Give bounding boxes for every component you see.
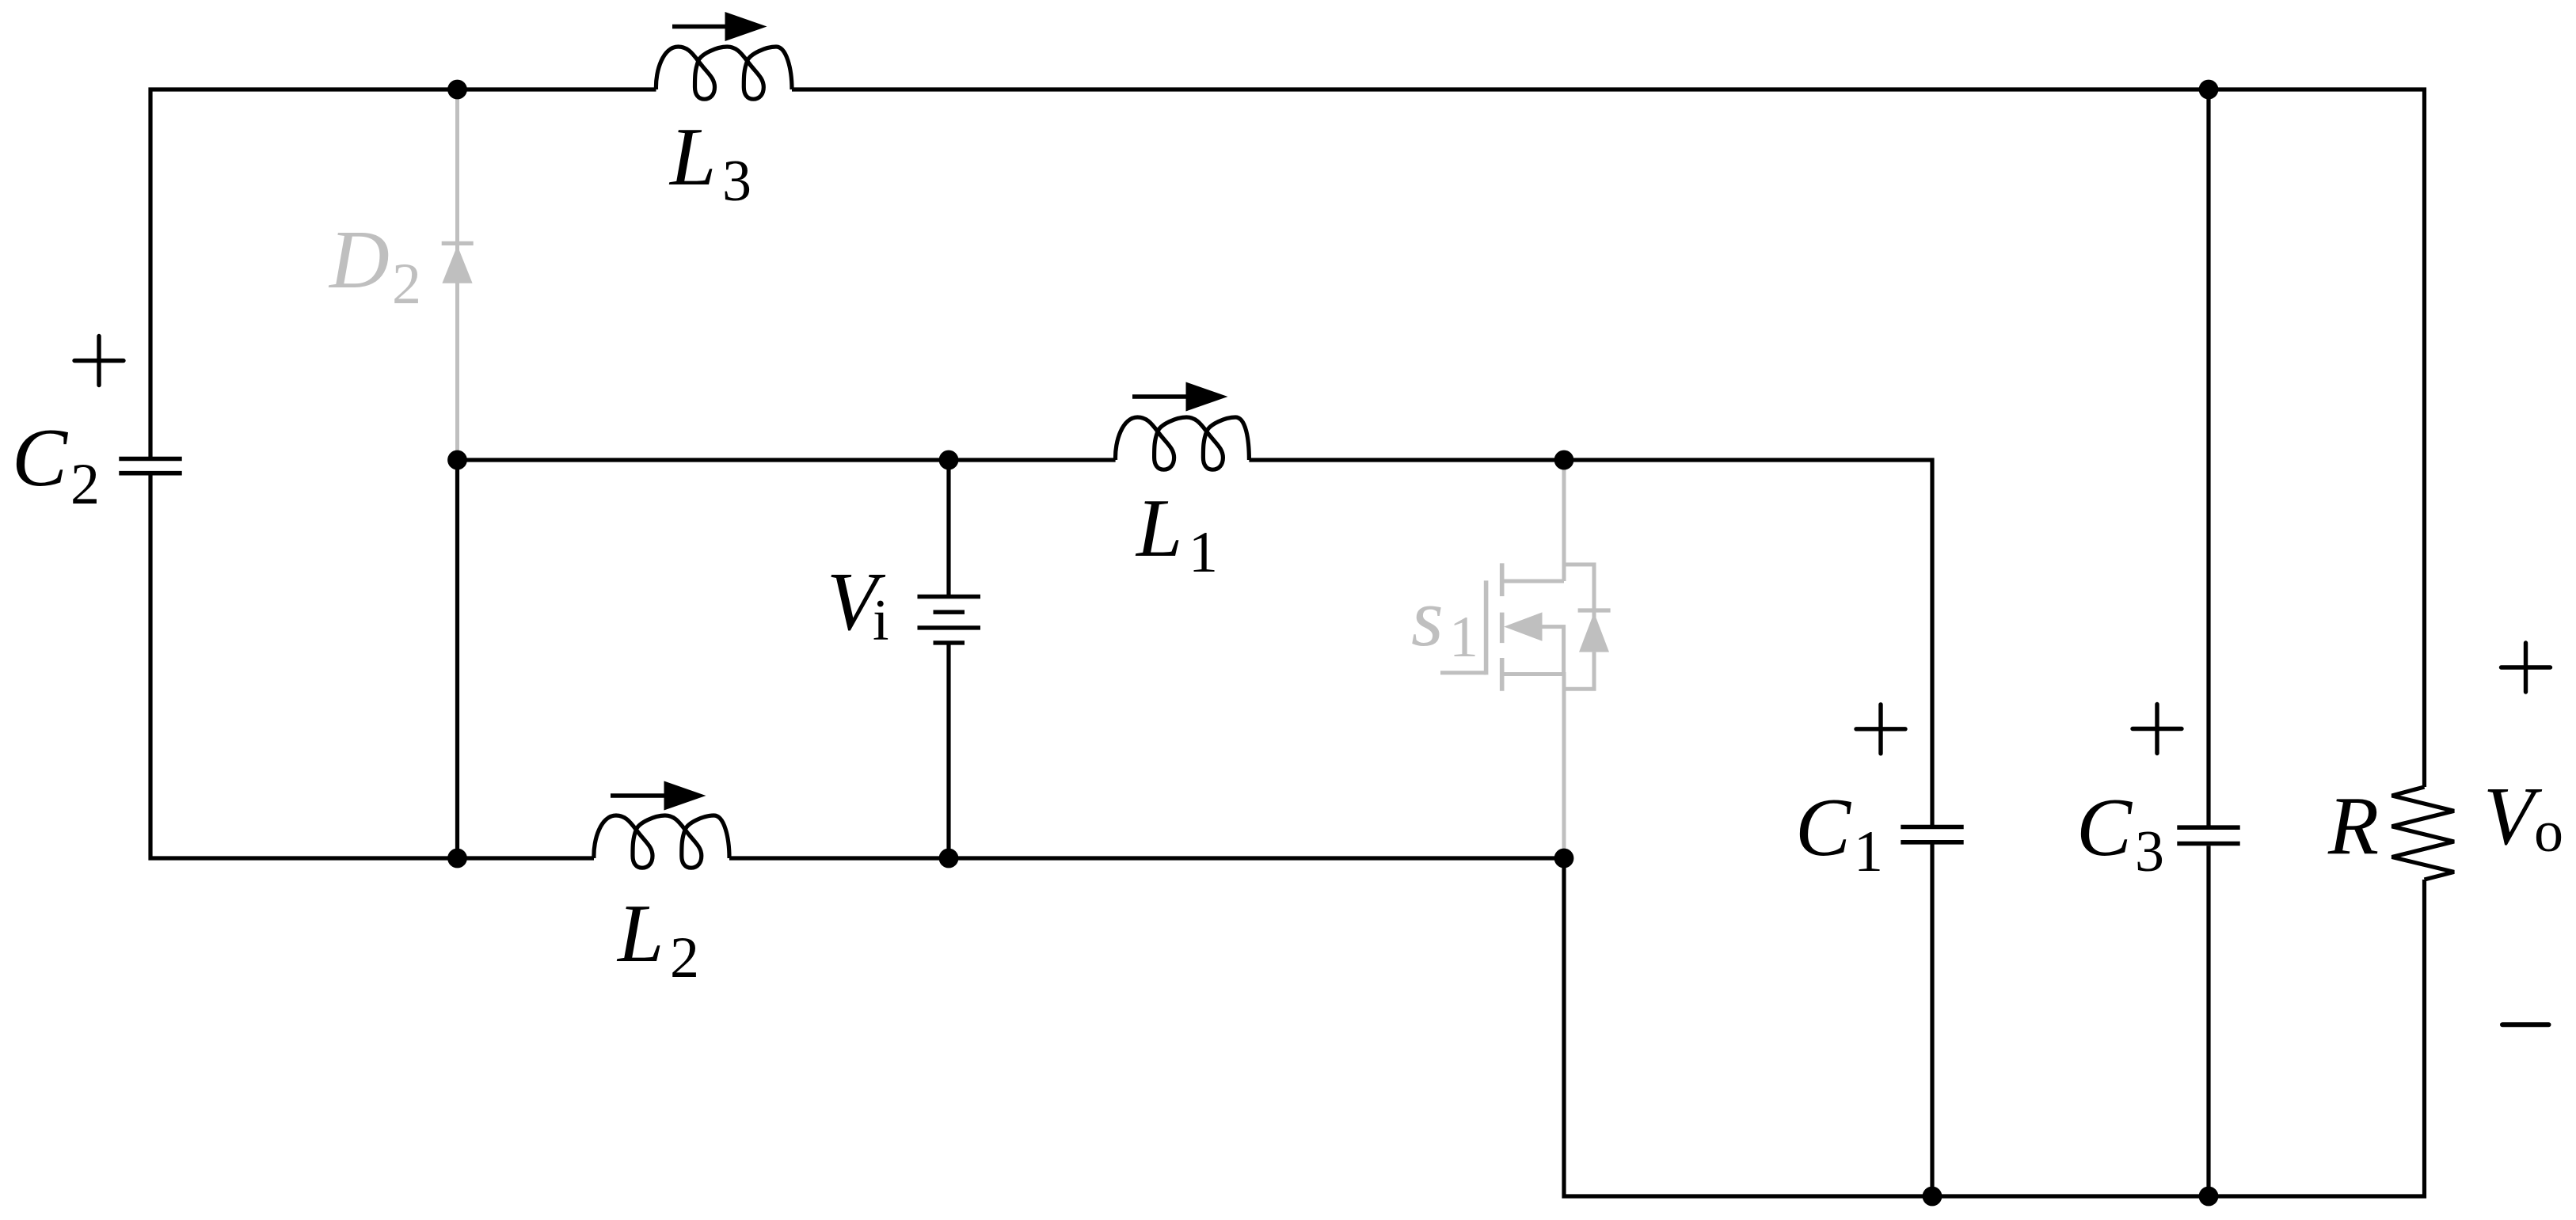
wire right: resistor bottom to bottom-right corner, bottom wire to s1 node, up to bottom node xyxy=(1564,858,2425,1196)
resistor R zigzag xyxy=(2392,787,2455,880)
minus sign Vo xyxy=(2502,1022,2549,1027)
capacitor C1 plates xyxy=(1901,827,1963,842)
junction node D2 cathode / top rail xyxy=(447,80,467,100)
svg-text:L: L xyxy=(668,110,716,203)
inductor L2 current arrow xyxy=(611,793,668,797)
transistor s1 gate lead xyxy=(1440,671,1486,675)
inductor L1 coil xyxy=(1116,417,1250,469)
wire left: C2 bottom plate down, bottom wire to L2 xyxy=(150,475,594,858)
wire top: L3 to top-right corner, down to resistor R top xyxy=(792,89,2425,787)
wire middle right: L1 to corner, down to C1 top xyxy=(1249,460,1932,825)
svg-text:o: o xyxy=(2534,800,2563,865)
junction node D2 anode / middle rail xyxy=(447,450,467,470)
diode D2 cathode bar xyxy=(442,241,474,245)
battery Vi plates xyxy=(918,597,981,643)
wire C3 top lead xyxy=(2206,89,2210,826)
plus sign C1 xyxy=(1856,705,1905,754)
wire top-left: left edge up and top wire to L3 xyxy=(150,89,656,457)
inductor L1 current arrow xyxy=(1132,394,1189,398)
inductor L3 coil xyxy=(656,47,792,99)
svg-text:1: 1 xyxy=(1854,819,1883,884)
junction node Vi plus / middle rail xyxy=(939,450,959,470)
junction node C3 top rail xyxy=(2199,80,2219,100)
wire C3 bottom lead xyxy=(2206,846,2210,1196)
plus sign C2 xyxy=(74,336,124,386)
svg-text:3: 3 xyxy=(722,149,751,214)
plus sign C3 xyxy=(2133,705,2182,754)
svg-text:2: 2 xyxy=(392,252,421,317)
wire D2 node down to bottom wire xyxy=(455,460,459,858)
junction node s1 source / bottom rail xyxy=(1554,849,1574,868)
junction node C2-L2 bottom rail xyxy=(447,849,467,868)
svg-text:R: R xyxy=(2327,779,2379,872)
svg-text:2: 2 xyxy=(70,452,100,517)
transistor s1 channel segments xyxy=(1500,563,1505,690)
transistor s1 gate bar xyxy=(1484,580,1489,675)
diode D2 triangle xyxy=(442,245,472,283)
capacitor C2 plates xyxy=(119,459,181,473)
inductor L2 coil xyxy=(594,815,729,868)
transistor s1 source lead xyxy=(1502,675,1564,859)
svg-text:s: s xyxy=(1411,571,1444,663)
diode D2 wire xyxy=(455,89,459,460)
junction node C1 bottom / ground rail xyxy=(1923,1187,1942,1207)
svg-text:1: 1 xyxy=(1449,605,1478,670)
transistor s1 body diode cathode bar xyxy=(1578,608,1611,612)
transistor s1 drain lead xyxy=(1562,460,1566,581)
svg-text:L: L xyxy=(1135,481,1182,574)
wire Vi top lead xyxy=(946,460,950,595)
capacitor C3 plates xyxy=(2177,827,2239,843)
transistor s1 body diode branch xyxy=(1564,564,1594,689)
junction node C3 bottom / ground rail xyxy=(2199,1187,2219,1207)
svg-text:L: L xyxy=(616,887,664,979)
svg-text:C: C xyxy=(1795,781,1852,873)
wire bottom middle: L2 to Vi node to s1 node xyxy=(729,856,1564,860)
svg-text:1: 1 xyxy=(1189,520,1218,585)
inductor L3 current arrow xyxy=(672,25,729,29)
transistor s1 bulk arrow xyxy=(1504,612,1542,640)
junction node Vi minus / bottom rail xyxy=(939,849,959,868)
junction node s1 drain / middle rail xyxy=(1554,450,1574,470)
svg-text:i: i xyxy=(873,588,889,653)
wire middle: D2 node to L1 xyxy=(458,458,1116,462)
svg-text:C: C xyxy=(12,411,69,504)
svg-text:D: D xyxy=(328,213,390,306)
plus sign Vo xyxy=(2502,643,2551,692)
wire C1 bottom lead xyxy=(1930,844,1934,1196)
transistor s1 drain tab xyxy=(1502,580,1564,583)
svg-text:2: 2 xyxy=(670,925,699,990)
svg-text:C: C xyxy=(2076,781,2133,873)
transistor s1 body diode triangle xyxy=(1579,613,1609,652)
wire Vi bottom lead xyxy=(946,644,950,858)
svg-text:3: 3 xyxy=(2135,819,2164,884)
